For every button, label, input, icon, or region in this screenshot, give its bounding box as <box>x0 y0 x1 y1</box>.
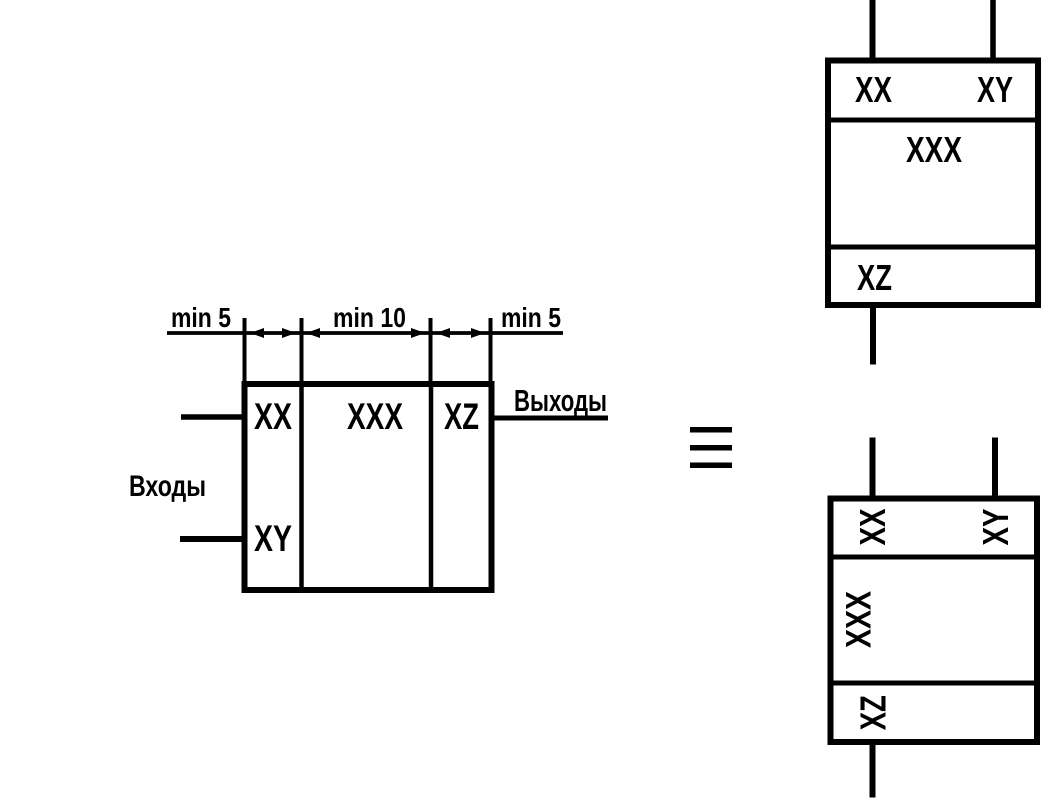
svg-text:Входы: Входы <box>129 470 206 503</box>
dimension arrow right of min5(right), pointing right <box>471 328 485 338</box>
svg-text:XY: XY <box>975 509 1016 546</box>
divider line between left field (XX/XY) and main field <box>299 384 304 590</box>
equivalence sign bar 2 <box>690 445 732 451</box>
dimension arrow left of min10, pointing left <box>306 328 320 338</box>
bottom-right divider 2 <box>830 681 1036 686</box>
dimension arrow right of min10, pointing right <box>411 328 425 338</box>
main element outline (left symbol body) <box>245 384 492 590</box>
svg-text:Выходы: Выходы <box>514 383 607 418</box>
svg-text:XZ: XZ <box>857 257 892 298</box>
equivalence sign bar 3 <box>690 463 732 469</box>
extension line at box right edge <box>489 318 493 382</box>
input wire 1 <box>181 414 244 420</box>
svg-text:min 5: min 5 <box>171 302 231 333</box>
equivalence sign bar 1 <box>690 427 732 433</box>
top-right divider 1 <box>828 118 1038 123</box>
dimension arrow left of min5(left), pointing left <box>250 328 264 338</box>
bottom-right output wire <box>870 742 876 798</box>
top-right input wire 1 <box>870 0 876 60</box>
input wire 2 <box>180 536 244 542</box>
svg-text:min 10: min 10 <box>333 302 406 333</box>
svg-text:XZ: XZ <box>853 695 894 730</box>
extension line at divider 1 <box>300 318 304 384</box>
svg-text:XX: XX <box>852 509 893 546</box>
svg-text:XXX: XXX <box>906 129 962 170</box>
bottom-right element outline <box>831 499 1038 743</box>
output wire <box>491 416 608 421</box>
top-right output wire <box>870 305 876 365</box>
svg-text:XXX: XXX <box>347 396 403 437</box>
svg-text:XXX: XXX <box>840 590 879 648</box>
dimension line <box>167 331 563 335</box>
bottom-right input wire 1 <box>870 438 876 499</box>
svg-text:XX: XX <box>855 69 892 110</box>
top-right divider 2 <box>828 245 1038 250</box>
top-right input wire 2 <box>990 0 996 60</box>
extension line at box left edge <box>243 318 247 382</box>
top-right element outline <box>828 61 1038 306</box>
dimension arrow left of min5(right), pointing left <box>436 328 450 338</box>
svg-text:XZ: XZ <box>444 396 479 437</box>
svg-text:XX: XX <box>254 396 292 437</box>
bottom-right divider 1 <box>830 555 1036 560</box>
divider line between main field and right field (XZ) <box>429 384 434 590</box>
svg-text:min 5: min 5 <box>501 302 561 333</box>
dimension arrow right of min5(left), pointing right <box>282 328 296 338</box>
extension line at divider 2 <box>429 318 433 384</box>
bottom-right input wire 2 <box>992 438 998 499</box>
svg-text:XY: XY <box>254 518 292 559</box>
svg-text:XY: XY <box>977 69 1013 110</box>
